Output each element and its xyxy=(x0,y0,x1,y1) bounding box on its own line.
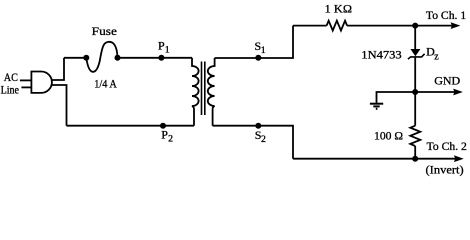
wire plug bottom output xyxy=(51,85,66,126)
plug prong lower xyxy=(21,86,31,88)
arrowhead To Ch.2 xyxy=(454,155,464,162)
svg-text:1: 1 xyxy=(165,45,170,56)
node P1 xyxy=(158,55,164,61)
wire plug top output xyxy=(51,58,64,80)
svg-text:GND: GND xyxy=(434,73,460,87)
svg-text:2: 2 xyxy=(261,134,266,145)
resistor R1 1 KΩ xyxy=(327,21,348,31)
wire top rail left xyxy=(293,25,327,27)
svg-text:z: z xyxy=(434,52,439,63)
plug prong upper xyxy=(20,79,32,81)
svg-text:To Ch. 2: To Ch. 2 xyxy=(427,139,467,153)
wire ground branch xyxy=(377,92,416,103)
ground symbol xyxy=(370,104,383,109)
svg-text:1 KΩ: 1 KΩ xyxy=(325,2,352,16)
wire secondary top xyxy=(215,26,293,58)
wire GND arrow line xyxy=(415,91,456,93)
wire 100 ohm column upper xyxy=(414,92,416,126)
wire 100 ohm column lower xyxy=(414,146,416,159)
transformer T1 primary winding xyxy=(192,58,199,126)
wire zener column upper xyxy=(414,26,416,50)
svg-text:To Ch. 1: To Ch. 1 xyxy=(426,8,466,22)
svg-text:100 Ω: 100 Ω xyxy=(374,128,403,142)
svg-text:Fuse: Fuse xyxy=(92,24,117,38)
zener diode Dz triangle xyxy=(410,49,420,56)
wire fuse to P1 to transformer xyxy=(118,57,193,59)
svg-text:2: 2 xyxy=(168,133,173,144)
svg-text:Line: Line xyxy=(1,83,19,97)
svg-text:1: 1 xyxy=(261,45,266,56)
node S1 xyxy=(255,55,261,61)
zener diode Dz bar xyxy=(408,54,425,59)
node P2 xyxy=(160,123,166,129)
fuse F1 curve xyxy=(86,42,117,72)
wire bottom rail primary xyxy=(67,125,195,127)
arrowhead GND xyxy=(453,89,463,96)
svg-text:1N4733: 1N4733 xyxy=(361,48,401,62)
wire bottom rail / to Ch.2 arrow line xyxy=(293,158,456,160)
node fuse right xyxy=(115,55,121,61)
svg-text:1/4 A: 1/4 A xyxy=(94,76,117,90)
resistor R2 100 Ω xyxy=(410,126,420,146)
svg-text:(Invert): (Invert) xyxy=(426,163,464,177)
node top (zener top) xyxy=(412,23,418,29)
node bottom (Ch.2) xyxy=(412,156,418,162)
node S2 xyxy=(255,123,261,129)
wire secondary bottom xyxy=(213,126,293,159)
wire fuse line left xyxy=(64,57,86,59)
node fuse left xyxy=(83,55,89,61)
wire zener column lower xyxy=(414,57,416,92)
arrowhead To Ch.1 xyxy=(451,22,461,29)
wire top rail right / to Ch.1 arrow line xyxy=(347,25,456,27)
transformer T1 secondary winding xyxy=(208,58,215,126)
AC plug body xyxy=(31,72,52,93)
transformer T1 core xyxy=(202,62,205,116)
node GND xyxy=(412,89,418,95)
